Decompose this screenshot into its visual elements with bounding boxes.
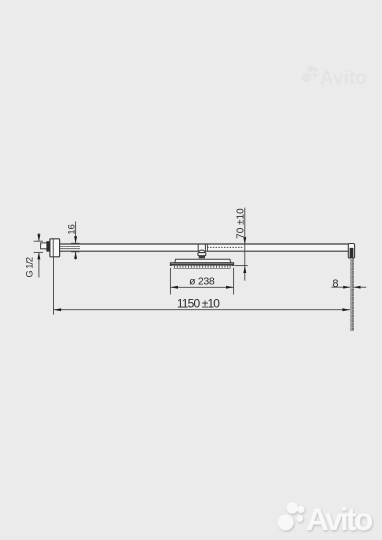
svg-text:1150 ±10: 1150 ±10 — [177, 297, 220, 311]
svg-text:16: 16 — [66, 224, 76, 234]
svg-text:Avito: Avito — [320, 68, 367, 89]
svg-text:ø 238: ø 238 — [189, 276, 215, 288]
svg-text:70 ±10: 70 ±10 — [236, 208, 247, 239]
svg-text:G 1/2: G 1/2 — [25, 257, 35, 277]
svg-text:Avito: Avito — [306, 501, 373, 537]
svg-text:8: 8 — [332, 278, 338, 290]
